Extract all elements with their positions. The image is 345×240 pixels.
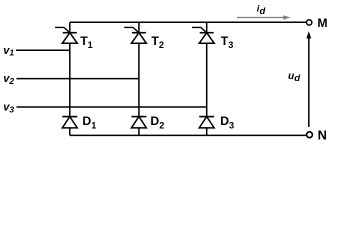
current arrow i_d: [237, 15, 291, 20]
wire: T3 cathode lead from top bus: [206, 22, 208, 32]
svg-text:ud: ud: [288, 71, 301, 84]
wire: T1 cathode lead from top bus: [69, 22, 71, 32]
wire: phase input v1: [16, 49, 70, 51]
wire: D2 anode lead to bottom bus: [138, 128, 140, 135]
svg-text:v3: v3: [3, 102, 14, 115]
diode D3: [199, 117, 214, 128]
wire: bottom negative bus (anode bus to N): [70, 134, 307, 136]
wire: T2 cathode lead from top bus: [138, 22, 140, 32]
diode D1: [62, 117, 77, 128]
thyristor T3: [192, 27, 214, 43]
thyristor T2: [124, 27, 146, 43]
wire: leg 2 vertical (T2 anode to D2 cathode): [138, 43, 140, 116]
wire: leg 1 vertical (T1 anode to D1 cathode): [69, 43, 71, 116]
wire: leg 3 vertical (T3 anode to D3 cathode): [206, 43, 208, 116]
svg-text:N: N: [318, 128, 327, 142]
wire: top positive bus (cathode bus to M): [70, 21, 307, 23]
svg-text:M: M: [317, 16, 327, 30]
terminal M: [307, 20, 312, 25]
svg-text:v1: v1: [3, 45, 14, 58]
thyristor T1: [55, 27, 77, 43]
terminal N: [307, 132, 313, 138]
wire: phase input v2: [17, 78, 139, 80]
svg-text:v2: v2: [3, 73, 14, 86]
wire: D3 anode lead to bottom bus: [206, 128, 208, 135]
wire: phase input v3: [17, 106, 207, 108]
diode D2: [131, 117, 146, 128]
wire: D1 anode lead to bottom bus: [69, 128, 71, 135]
voltage arrow u_d (from N up to M): [306, 31, 311, 127]
